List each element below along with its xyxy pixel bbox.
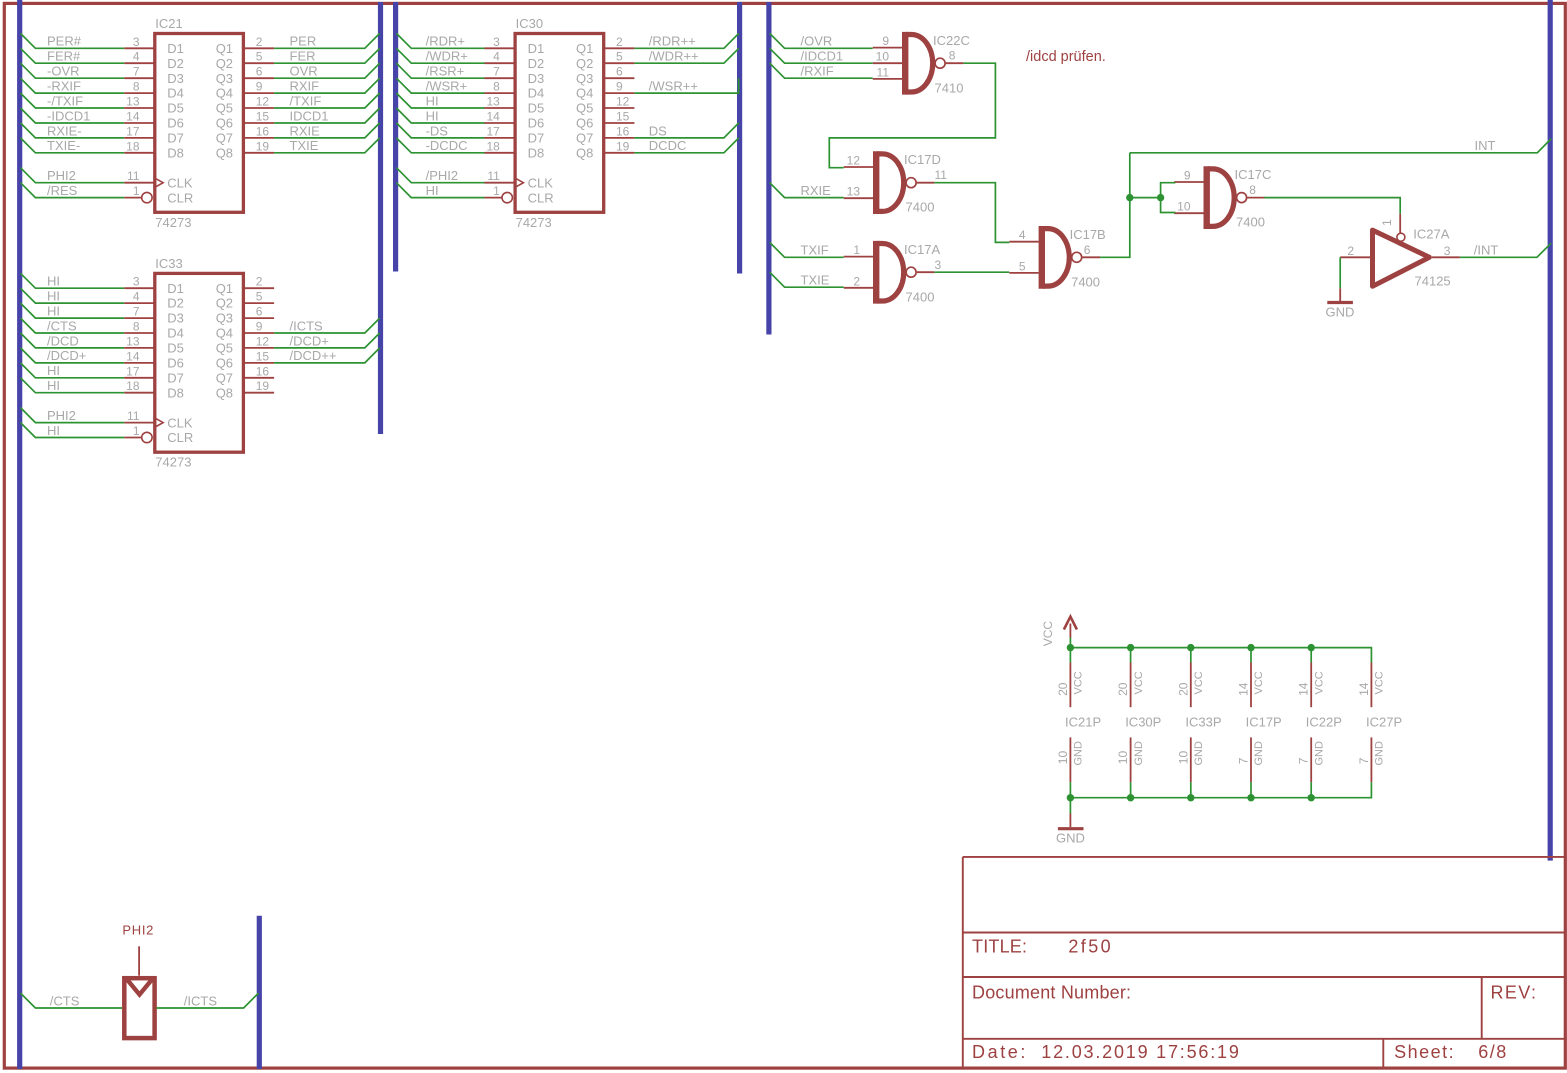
svg-text:Q2: Q2 xyxy=(216,56,233,71)
wire tap to IC17C inputs xyxy=(1130,197,1161,199)
svg-text:CLK: CLK xyxy=(528,175,554,190)
svg-text:TXIF: TXIF xyxy=(801,243,829,258)
svg-text:/OVR: /OVR xyxy=(801,34,833,49)
wire /RDR++ from IC30 to bus C xyxy=(634,33,738,48)
junction at IC17B output riser xyxy=(1126,194,1133,201)
svg-text:VCC: VCC xyxy=(1193,671,1205,694)
junction GND rail col 1 xyxy=(1067,794,1074,801)
svg-text:5: 5 xyxy=(256,50,263,64)
IC33 pin 15 (Q6) xyxy=(245,349,274,363)
svg-text:/RSR+: /RSR+ xyxy=(426,64,465,79)
svg-text:14: 14 xyxy=(126,349,140,363)
IC33 pin 18 (D8) xyxy=(124,379,153,393)
svg-text:-IDCD1: -IDCD1 xyxy=(47,108,90,123)
svg-text:9: 9 xyxy=(616,80,623,94)
svg-text:2f50: 2f50 xyxy=(1068,937,1113,957)
wire /TXIF from IC21 to bus A xyxy=(274,93,380,108)
svg-text:6: 6 xyxy=(256,305,263,319)
svg-text:18: 18 xyxy=(126,139,140,153)
svg-text:/WSR++: /WSR++ xyxy=(649,79,698,94)
wire -DCDC from bus B to IC30 xyxy=(396,138,484,153)
wire -RXIF from bus L to IC21 xyxy=(21,78,125,93)
svg-text:IC17C: IC17C xyxy=(1235,167,1272,182)
svg-text:Q3: Q3 xyxy=(216,311,233,326)
svg-text:7: 7 xyxy=(133,305,140,319)
wire INT from junction to bus R xyxy=(1130,138,1551,153)
svg-text:VCC: VCC xyxy=(1133,671,1145,694)
IC21 pin 19 (Q8) xyxy=(245,139,274,153)
IC33 pin 16 (Q7) xyxy=(245,364,274,378)
svg-text:CLR: CLR xyxy=(167,190,193,205)
svg-text:D4: D4 xyxy=(167,86,184,101)
svg-text:/idcd prüfen.: /idcd prüfen. xyxy=(1026,49,1106,65)
wire IC17B output 6 up to INT line xyxy=(1100,153,1130,257)
svg-text:11: 11 xyxy=(487,169,500,183)
power pins of IC17P xyxy=(1237,648,1282,798)
wire /ICTS from jumper to bus S xyxy=(156,993,258,1008)
svg-text:/ICTS: /ICTS xyxy=(290,318,324,333)
svg-text:GND: GND xyxy=(1326,304,1355,319)
wire -DS from bus B to IC30 xyxy=(396,123,484,138)
svg-text:3: 3 xyxy=(133,275,140,289)
wire HI from bus L to IC33 xyxy=(21,423,125,438)
svg-text:7: 7 xyxy=(493,65,500,79)
IC21 pin 7 (D3) xyxy=(124,65,153,79)
wire PHI2 from bus L to IC33 xyxy=(21,408,125,423)
svg-text:FER: FER xyxy=(290,49,316,64)
IC30 pin 12 (Q5) xyxy=(605,95,634,109)
IC21 pin 2 (Q1) xyxy=(245,35,274,49)
IC IC33 74273 register box xyxy=(154,256,244,470)
junction GND rail col 5 xyxy=(1308,794,1315,801)
svg-text:Q7: Q7 xyxy=(216,131,233,146)
IC30 pin 6 (Q3) xyxy=(605,65,634,79)
svg-text:17: 17 xyxy=(126,124,140,138)
svg-text:9: 9 xyxy=(256,80,263,94)
power pins of IC30P xyxy=(1116,648,1161,798)
junction GND rail col 4 xyxy=(1247,794,1254,801)
IC33 pin 3 (D1) xyxy=(124,275,153,289)
svg-text:TXIE: TXIE xyxy=(801,273,830,288)
svg-text:D7: D7 xyxy=(528,131,545,146)
svg-text:GND: GND xyxy=(1313,741,1325,766)
wire VCC rail xyxy=(1070,648,1371,663)
IC21 pin 15 (Q6) xyxy=(245,110,274,124)
svg-text:19: 19 xyxy=(256,379,270,393)
wire /IDCD1 from bus D to IC22C xyxy=(770,48,873,63)
svg-text:/WDR+: /WDR+ xyxy=(426,49,468,64)
svg-text:GND: GND xyxy=(1374,741,1386,766)
svg-text:74273: 74273 xyxy=(516,215,552,230)
svg-text:14: 14 xyxy=(1237,682,1251,696)
wire PER from IC21 to bus A xyxy=(274,33,380,48)
svg-text:Q1: Q1 xyxy=(216,281,233,296)
IC21 pin 16 (Q7) xyxy=(245,124,274,138)
svg-text:/WDR++: /WDR++ xyxy=(649,49,699,64)
IC30 pin 11 (CLK) xyxy=(485,169,514,183)
svg-text:18: 18 xyxy=(126,379,140,393)
svg-text:11: 11 xyxy=(127,169,140,183)
svg-text:REV:: REV: xyxy=(1491,983,1538,1003)
svg-text:D6: D6 xyxy=(167,116,184,131)
ground symbol below rail xyxy=(1056,798,1085,846)
wire IC17C input bracket (pins 9+10 tied) xyxy=(1161,183,1176,213)
svg-text:6: 6 xyxy=(1084,243,1091,257)
svg-text:FER#: FER# xyxy=(47,49,81,64)
IC30 pin 15 (Q6) xyxy=(605,110,634,124)
svg-text:D2: D2 xyxy=(167,56,184,71)
svg-text:Q5: Q5 xyxy=(576,101,593,116)
wire RXIE from IC21 to bus A xyxy=(274,123,380,138)
IC21 pin 12 (Q5) xyxy=(245,95,274,109)
svg-text:5: 5 xyxy=(1019,259,1026,273)
svg-text:20: 20 xyxy=(1056,682,1070,696)
svg-text:8: 8 xyxy=(133,320,140,334)
svg-text:IDCD1: IDCD1 xyxy=(290,108,329,123)
svg-text:RXIE: RXIE xyxy=(290,123,321,138)
svg-text:74273: 74273 xyxy=(155,455,191,470)
svg-text:IC22C: IC22C xyxy=(933,33,970,48)
svg-text:17: 17 xyxy=(486,124,500,138)
wire /WSR+ from bus B to IC30 xyxy=(396,78,484,93)
svg-text:-OVR: -OVR xyxy=(47,64,80,79)
svg-text:3: 3 xyxy=(935,258,942,272)
svg-text:8: 8 xyxy=(949,49,956,63)
IC21 pin 9 (Q4) xyxy=(245,80,274,94)
IC30 pin 4 (D2) xyxy=(485,50,514,64)
svg-text:D4: D4 xyxy=(167,326,184,341)
svg-text:OVR: OVR xyxy=(290,64,318,79)
svg-text:7410: 7410 xyxy=(935,80,964,95)
svg-text:Q5: Q5 xyxy=(216,341,233,356)
wire /ICTS from IC33 to bus A xyxy=(274,318,380,333)
svg-text:TXIE: TXIE xyxy=(290,138,319,153)
svg-text:1: 1 xyxy=(493,184,500,198)
svg-text:4: 4 xyxy=(1019,228,1026,242)
IC33 pin 9 (Q4) xyxy=(245,320,274,334)
svg-text:Q7: Q7 xyxy=(216,370,233,385)
IC30 pin 7 (D3) xyxy=(485,65,514,79)
IC30 pin 9 (Q4) xyxy=(605,80,634,94)
wire /RSR+ from bus B to IC30 xyxy=(396,63,484,78)
IC33 pin 1 (CLR) xyxy=(124,424,152,443)
IC21 pin 18 (D8) xyxy=(124,139,153,153)
svg-text:6: 6 xyxy=(256,65,263,79)
svg-text:D2: D2 xyxy=(528,56,545,71)
svg-text:HI: HI xyxy=(47,304,60,319)
IC33 pin 12 (Q5) xyxy=(245,334,274,348)
svg-text:9: 9 xyxy=(1184,169,1191,183)
title block text Document Number / REV xyxy=(972,983,1537,1003)
svg-text:HI: HI xyxy=(47,378,60,393)
svg-text:DCDC: DCDC xyxy=(649,138,687,153)
svg-text:CLK: CLK xyxy=(167,415,193,430)
svg-text:2: 2 xyxy=(256,275,263,289)
svg-text:13: 13 xyxy=(847,185,861,199)
wire /RES from bus L to IC21 xyxy=(21,183,125,198)
svg-text:/INT: /INT xyxy=(1474,243,1499,258)
svg-text:10: 10 xyxy=(1116,751,1130,765)
wire /PHI2 from bus B to IC30 xyxy=(396,168,484,183)
wire /WSR++ from IC30 pin 9 up into bus C xyxy=(634,78,738,93)
svg-text:2: 2 xyxy=(1347,244,1354,258)
svg-text:IC17D: IC17D xyxy=(904,152,941,167)
IC30 pin 13 (D5) xyxy=(485,95,514,109)
bus L (left vertical bus) xyxy=(17,0,22,1069)
svg-text:/DCD: /DCD xyxy=(47,333,79,348)
svg-text:Q2: Q2 xyxy=(576,56,593,71)
svg-text:10: 10 xyxy=(1176,751,1190,765)
wire /WDR++ from IC30 to bus C xyxy=(634,48,738,63)
IC33 pin 19 (Q8) xyxy=(245,379,274,393)
svg-text:IC27P: IC27P xyxy=(1366,715,1402,730)
svg-text:/DCD+: /DCD+ xyxy=(290,333,329,348)
svg-text:7: 7 xyxy=(1297,757,1311,764)
svg-text:VCC: VCC xyxy=(1313,671,1325,694)
svg-text:15: 15 xyxy=(256,110,270,124)
svg-text:9: 9 xyxy=(256,320,263,334)
wire /RDR+ from bus B to IC30 xyxy=(396,33,484,48)
wire HI from bus B to IC30 xyxy=(396,108,484,123)
wire /OVR from bus D to IC22C xyxy=(770,33,873,48)
svg-text:6/8: 6/8 xyxy=(1478,1042,1508,1062)
IC21 pin 3 (D1) xyxy=(124,35,153,49)
IC30 pin 5 (Q2) xyxy=(605,50,634,64)
svg-text:TXIE-: TXIE- xyxy=(47,138,80,153)
svg-text:D2: D2 xyxy=(167,296,184,311)
wire PER# from bus L to IC21 xyxy=(21,33,125,48)
wire HI from bus B to IC30 xyxy=(396,93,484,108)
3-input NAND gate IC22C (7410) xyxy=(873,32,970,95)
junction VCC rail col 1 xyxy=(1067,644,1074,651)
IC33 pin 11 (CLK) xyxy=(124,409,153,423)
IC33 pin 2 (Q1) xyxy=(245,275,274,289)
svg-text:IC27A: IC27A xyxy=(1413,227,1449,242)
svg-text:4: 4 xyxy=(493,50,500,64)
svg-text:IC21: IC21 xyxy=(155,16,182,31)
IC30 pin 3 (D1) xyxy=(485,35,514,49)
junction GND rail col 2 xyxy=(1127,794,1134,801)
IC33 pin 17 (D7) xyxy=(124,364,153,378)
wire RXIF from IC21 to bus A xyxy=(274,78,380,93)
svg-text:19: 19 xyxy=(616,139,630,153)
IC21 pin 13 (D5) xyxy=(124,95,153,109)
IC30 pin 19 (Q8) xyxy=(605,139,634,153)
IC21 pin 17 (D7) xyxy=(124,124,153,138)
svg-text:/CTS: /CTS xyxy=(47,318,77,333)
svg-text:D8: D8 xyxy=(167,145,184,160)
ground symbol at IC27A xyxy=(1326,288,1355,319)
wire GND rail xyxy=(1070,782,1371,798)
wire /DCD++ from IC33 to bus A xyxy=(274,348,380,363)
svg-text:D6: D6 xyxy=(167,356,184,371)
svg-text:RXIE: RXIE xyxy=(801,183,832,198)
IC21 pin 6 (Q3) xyxy=(245,65,274,79)
svg-text:PHI2: PHI2 xyxy=(47,408,76,423)
svg-text:GND: GND xyxy=(1056,830,1085,845)
svg-text:PHI2: PHI2 xyxy=(122,923,154,938)
wire PHI2 from bus L to IC21 xyxy=(21,168,125,183)
junction VCC rail col 4 xyxy=(1247,644,1254,651)
wire /CTS from bus L to IC33 xyxy=(21,318,125,333)
svg-text:3: 3 xyxy=(493,35,500,49)
svg-text:Q4: Q4 xyxy=(216,86,233,101)
NAND gate IC17B (7400) xyxy=(1009,226,1105,289)
svg-text:16: 16 xyxy=(256,124,270,138)
svg-text:11: 11 xyxy=(877,65,890,79)
IC33 pin 7 (D3) xyxy=(124,305,153,319)
wire FER# from bus L to IC21 xyxy=(21,48,125,63)
wire -IDCD1 from bus L to IC21 xyxy=(21,108,125,123)
wire /DCD+ from bus L to IC33 xyxy=(21,348,125,363)
svg-text:RXIE-: RXIE- xyxy=(47,123,82,138)
svg-text:D5: D5 xyxy=(167,341,184,356)
svg-text:/WSR+: /WSR+ xyxy=(426,79,468,94)
svg-text:12: 12 xyxy=(847,154,861,168)
wire IDCD1 from IC21 to bus A xyxy=(274,108,380,123)
wire HI from bus L to IC33 xyxy=(21,303,125,318)
wire HI from bus L to IC33 xyxy=(21,378,125,393)
IC21 pin 14 (D6) xyxy=(124,110,153,124)
svg-text:CLR: CLR xyxy=(167,430,193,445)
svg-text:RXIF: RXIF xyxy=(290,79,320,94)
svg-text:-/TXIF: -/TXIF xyxy=(47,93,83,108)
svg-text:VCC: VCC xyxy=(1253,671,1265,694)
svg-text:/IDCD1: /IDCD1 xyxy=(801,49,844,64)
svg-text:-DS: -DS xyxy=(426,123,449,138)
svg-text:5: 5 xyxy=(256,290,263,304)
svg-text:12: 12 xyxy=(256,334,270,348)
svg-text:2: 2 xyxy=(256,35,263,49)
svg-text:CLK: CLK xyxy=(167,175,193,190)
svg-text:1: 1 xyxy=(853,243,860,257)
title block frame xyxy=(963,857,1566,1068)
svg-text:3: 3 xyxy=(1444,244,1451,258)
jumper JP PHI2 (solder jumper) xyxy=(122,923,154,1039)
svg-text:1: 1 xyxy=(1380,219,1394,226)
IC33 pin 4 (D2) xyxy=(124,290,153,304)
svg-text:HI: HI xyxy=(426,108,439,123)
bus R (right vertical bus) xyxy=(1548,0,1553,861)
svg-text:Q1: Q1 xyxy=(216,41,233,56)
svg-text:/DCD+: /DCD+ xyxy=(47,348,86,363)
IC30 pin 16 (Q7) xyxy=(605,124,634,138)
svg-text:2: 2 xyxy=(616,35,623,49)
IC33 pin 8 (D4) xyxy=(124,320,153,334)
svg-text:7400: 7400 xyxy=(906,200,935,215)
IC IC21 74273 register box xyxy=(154,16,244,230)
svg-text:16: 16 xyxy=(256,364,270,378)
wire /WDR+ from bus B to IC30 xyxy=(396,48,484,63)
junction GND rail col 3 xyxy=(1187,794,1194,801)
svg-text:17: 17 xyxy=(126,364,140,378)
svg-text:PER#: PER# xyxy=(47,34,82,49)
svg-text:7400: 7400 xyxy=(1071,274,1100,289)
svg-text:Q6: Q6 xyxy=(216,356,233,371)
svg-text:/RDR++: /RDR++ xyxy=(649,34,696,49)
svg-text:1: 1 xyxy=(133,424,140,438)
IC21 pin 4 (D2) xyxy=(124,50,153,64)
svg-text:74273: 74273 xyxy=(155,215,191,230)
IC30 pin 18 (D8) xyxy=(485,139,514,153)
svg-text:7400: 7400 xyxy=(1236,215,1265,230)
svg-text:Q8: Q8 xyxy=(216,385,233,400)
svg-text:18: 18 xyxy=(486,139,500,153)
svg-text:6: 6 xyxy=(616,65,623,79)
power pins of IC22P xyxy=(1297,648,1342,798)
IC30 pin 1 (CLR) xyxy=(485,184,513,203)
wire IC22C output 8 to IC17D pin 12 xyxy=(829,63,995,168)
svg-text:74125: 74125 xyxy=(1415,273,1451,288)
wire /CTS from bus L to jumper xyxy=(21,993,123,1008)
svg-text:HI: HI xyxy=(47,423,60,438)
NAND gate IC17A (7400) xyxy=(844,241,942,304)
wire OVR from IC21 to bus A xyxy=(274,63,380,78)
svg-text:INT: INT xyxy=(1475,138,1496,153)
IC33 pin 5 (Q2) xyxy=(245,290,274,304)
wire -/TXIF from bus L to IC21 xyxy=(21,93,125,108)
wire /RXIF from bus D to IC22C xyxy=(770,63,873,78)
svg-text:D5: D5 xyxy=(528,101,545,116)
svg-text:Q8: Q8 xyxy=(216,145,233,160)
svg-text:7: 7 xyxy=(1357,757,1371,764)
svg-text:IC30: IC30 xyxy=(516,16,543,31)
svg-text:15: 15 xyxy=(616,110,630,124)
svg-text:IC21P: IC21P xyxy=(1065,715,1101,730)
svg-text:HI: HI xyxy=(47,274,60,289)
svg-text:D8: D8 xyxy=(167,385,184,400)
IC30 pin 2 (Q1) xyxy=(605,35,634,49)
svg-text:8: 8 xyxy=(133,80,140,94)
wire HI from bus L to IC33 xyxy=(21,273,125,288)
svg-text:7: 7 xyxy=(1237,757,1251,764)
svg-text:11: 11 xyxy=(127,409,140,423)
svg-text:2: 2 xyxy=(853,274,860,288)
svg-text:12: 12 xyxy=(616,95,630,109)
svg-text:HI: HI xyxy=(47,289,60,304)
svg-text:Date:: Date: xyxy=(972,1042,1028,1062)
svg-text:HI: HI xyxy=(47,363,60,378)
svg-text:/RES: /RES xyxy=(47,183,78,198)
title block text TITLE xyxy=(972,937,1113,957)
svg-text:D1: D1 xyxy=(167,41,184,56)
NAND gate IC17C (7400) xyxy=(1174,166,1271,229)
svg-text:IC17A: IC17A xyxy=(904,242,940,257)
wire TXIE- from bus L to IC21 xyxy=(21,138,125,153)
svg-text:/RDR+: /RDR+ xyxy=(426,34,465,49)
svg-text:/PHI2: /PHI2 xyxy=(426,168,459,183)
svg-text:-RXIF: -RXIF xyxy=(47,79,81,94)
bus S (bottom short bus) xyxy=(257,916,262,1069)
wire TXIE from IC21 to bus A xyxy=(274,138,380,153)
svg-text:Q2: Q2 xyxy=(216,296,233,311)
title block text Date / Sheet xyxy=(972,1042,1508,1062)
svg-text:D3: D3 xyxy=(167,311,184,326)
svg-text:13: 13 xyxy=(126,95,140,109)
svg-text:9: 9 xyxy=(882,34,889,48)
svg-text:Document Number:: Document Number: xyxy=(972,983,1131,1003)
svg-text:HI: HI xyxy=(426,183,439,198)
svg-text:IC33P: IC33P xyxy=(1185,715,1221,730)
svg-text:Q3: Q3 xyxy=(216,71,233,86)
power pins of IC21P xyxy=(1056,648,1101,798)
svg-text:15: 15 xyxy=(256,349,270,363)
svg-text:IC33: IC33 xyxy=(155,256,182,271)
svg-text:8: 8 xyxy=(493,80,500,94)
svg-text:VCC: VCC xyxy=(1073,671,1085,694)
VCC supply symbol xyxy=(1041,617,1077,648)
svg-text:13: 13 xyxy=(486,95,500,109)
